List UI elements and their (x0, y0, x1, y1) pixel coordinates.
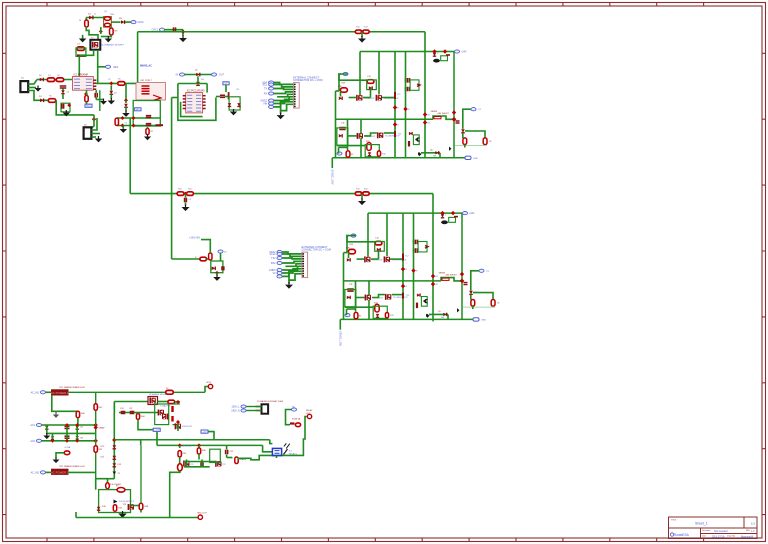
svg-text:REL: REL (441, 317, 445, 319)
svg-text:SCL: SCL (262, 84, 267, 87)
svg-text:B2: B2 (428, 123, 430, 125)
svg-text:+IN4 SHUNT: +IN4 SHUNT (437, 113, 450, 115)
svg-text:T14 MOSFET-P: T14 MOSFET-P (385, 135, 400, 137)
svg-text:SENSE: SENSE (439, 273, 446, 275)
svg-text:Not needed: Not needed (714, 529, 728, 533)
svg-text:B1: B1 (436, 276, 438, 278)
svg-text:GND: GND (473, 158, 478, 160)
svg-text:B1: B1 (428, 115, 430, 117)
svg-text:REV:: REV: (746, 530, 751, 532)
svg-text:1/1: 1/1 (751, 522, 756, 526)
svg-text:REF: REF (114, 67, 119, 69)
svg-text:T14 MOSFET-P: T14 MOSFET-P (393, 297, 408, 299)
svg-text:AC POWER 2: AC POWER 2 (51, 470, 69, 474)
svg-text:SPEAKER RELAY: SPEAKER RELAY (149, 393, 167, 396)
svg-text:C21: C21 (129, 408, 132, 410)
svg-text:+IN4 SHUNT: +IN4 SHUNT (445, 275, 458, 277)
svg-text:OK1 PC817: OK1 PC817 (140, 80, 152, 82)
svg-text:TX: TX (264, 88, 267, 91)
svg-text:Magnus64: Magnus64 (741, 535, 754, 539)
svg-text:N-CHANNEL MOSFET: N-CHANNEL MOSFET (102, 44, 125, 47)
svg-text:MAINS_AC: MAINS_AC (140, 65, 152, 68)
svg-text:+5V: +5V (203, 431, 207, 433)
svg-text:AC2: AC2 (30, 440, 35, 443)
svg-text:T11 MOSFET-N: T11 MOSFET-N (384, 98, 399, 100)
svg-text:VIN: VIN (263, 103, 267, 106)
svg-text:+24V: +24V (469, 213, 475, 215)
svg-text:RX2: RX2 (271, 262, 276, 265)
svg-text:RELAY: RELAY (306, 409, 313, 412)
svg-text:230V_N: 230V_N (231, 411, 240, 413)
svg-text:AC_IN2: AC_IN2 (31, 471, 40, 474)
svg-text:D15 SCHOTTKY: D15 SCHOTTKY (119, 501, 135, 503)
svg-text:REL: REL (433, 156, 437, 158)
svg-text:FUSE 2A: FUSE 2A (292, 418, 301, 421)
svg-text:+12V/+5V: +12V/+5V (189, 237, 200, 240)
svg-text:TITLE:: TITLE: (671, 520, 677, 522)
svg-text:CLK6: CLK6 (138, 21, 145, 24)
svg-text:T10 BC547: T10 BC547 (364, 98, 375, 100)
svg-text:TR1 TRANSFORMER 2x9V: TR1 TRANSFORMER 2x9V (59, 386, 85, 389)
svg-text:AC: AC (136, 108, 139, 111)
svg-text:AC POWER 1: AC POWER 1 (51, 391, 69, 395)
svg-text:SENSE_LOW: SENSE_LOW (339, 331, 342, 347)
svg-text:Date:: Date: (702, 535, 707, 538)
svg-text:RX: RX (264, 93, 268, 96)
svg-text:TR2 TRANSFORMER 1x9V: TR2 TRANSFORMER 1x9V (59, 465, 85, 468)
svg-text:AC1: AC1 (30, 424, 35, 427)
svg-text:29.5.17/19: 29.5.17/19 (712, 535, 725, 539)
svg-text:CONNECTOR I2C + COM: CONNECTOR I2C + COM (302, 249, 331, 252)
svg-text:SCL2: SCL2 (270, 253, 277, 256)
svg-text:230V_L: 230V_L (232, 407, 241, 409)
svg-text:X5 MAINS IN 230VAC 50HZ: X5 MAINS IN 230VAC 50HZ (257, 400, 284, 403)
svg-text:GND: GND (481, 319, 486, 321)
svg-text:RELAY1: RELAY1 (289, 452, 298, 455)
svg-text:IC1 PREAMP: IC1 PREAMP (74, 73, 89, 76)
svg-text:Sheet_1: Sheet_1 (695, 522, 708, 526)
svg-text:OUT1: OUT1 (206, 382, 212, 384)
svg-text:RoastESA: RoastESA (674, 533, 690, 537)
svg-text:T20 BC547: T20 BC547 (182, 426, 193, 428)
svg-text:TX2: TX2 (271, 257, 276, 260)
svg-text:SENSE_LOW: SENSE_LOW (331, 170, 334, 186)
svg-text:+12VA: +12VA (64, 446, 71, 449)
svg-text:IC2 PIC12F1840: IC2 PIC12F1840 (187, 89, 205, 92)
svg-text:AC_IN1: AC_IN1 (31, 391, 40, 394)
svg-text:DUAL FET: DUAL FET (161, 404, 172, 407)
svg-text:GND_OUT: GND_OUT (197, 513, 208, 515)
svg-text:OUT: OUT (219, 75, 224, 77)
svg-text:NC: NC (292, 407, 296, 409)
svg-text:AGC: AGC (86, 105, 91, 108)
svg-text:16M: 16M (110, 14, 114, 16)
svg-text:SENSE: SENSE (431, 111, 438, 113)
svg-text:VRAW: VRAW (99, 427, 105, 430)
svg-text:CONNECTOR I2C + COM: CONNECTOR I2C + COM (293, 79, 322, 82)
svg-text:+12V: +12V (154, 430, 160, 432)
svg-text:Document: Document (702, 529, 711, 532)
svg-text:C20: C20 (120, 408, 123, 410)
svg-text:Drawn By:: Drawn By: (727, 536, 736, 538)
svg-text:IN: IN (176, 74, 179, 77)
svg-text:B2: B2 (436, 284, 438, 286)
svg-text:+24V: +24V (461, 52, 467, 54)
